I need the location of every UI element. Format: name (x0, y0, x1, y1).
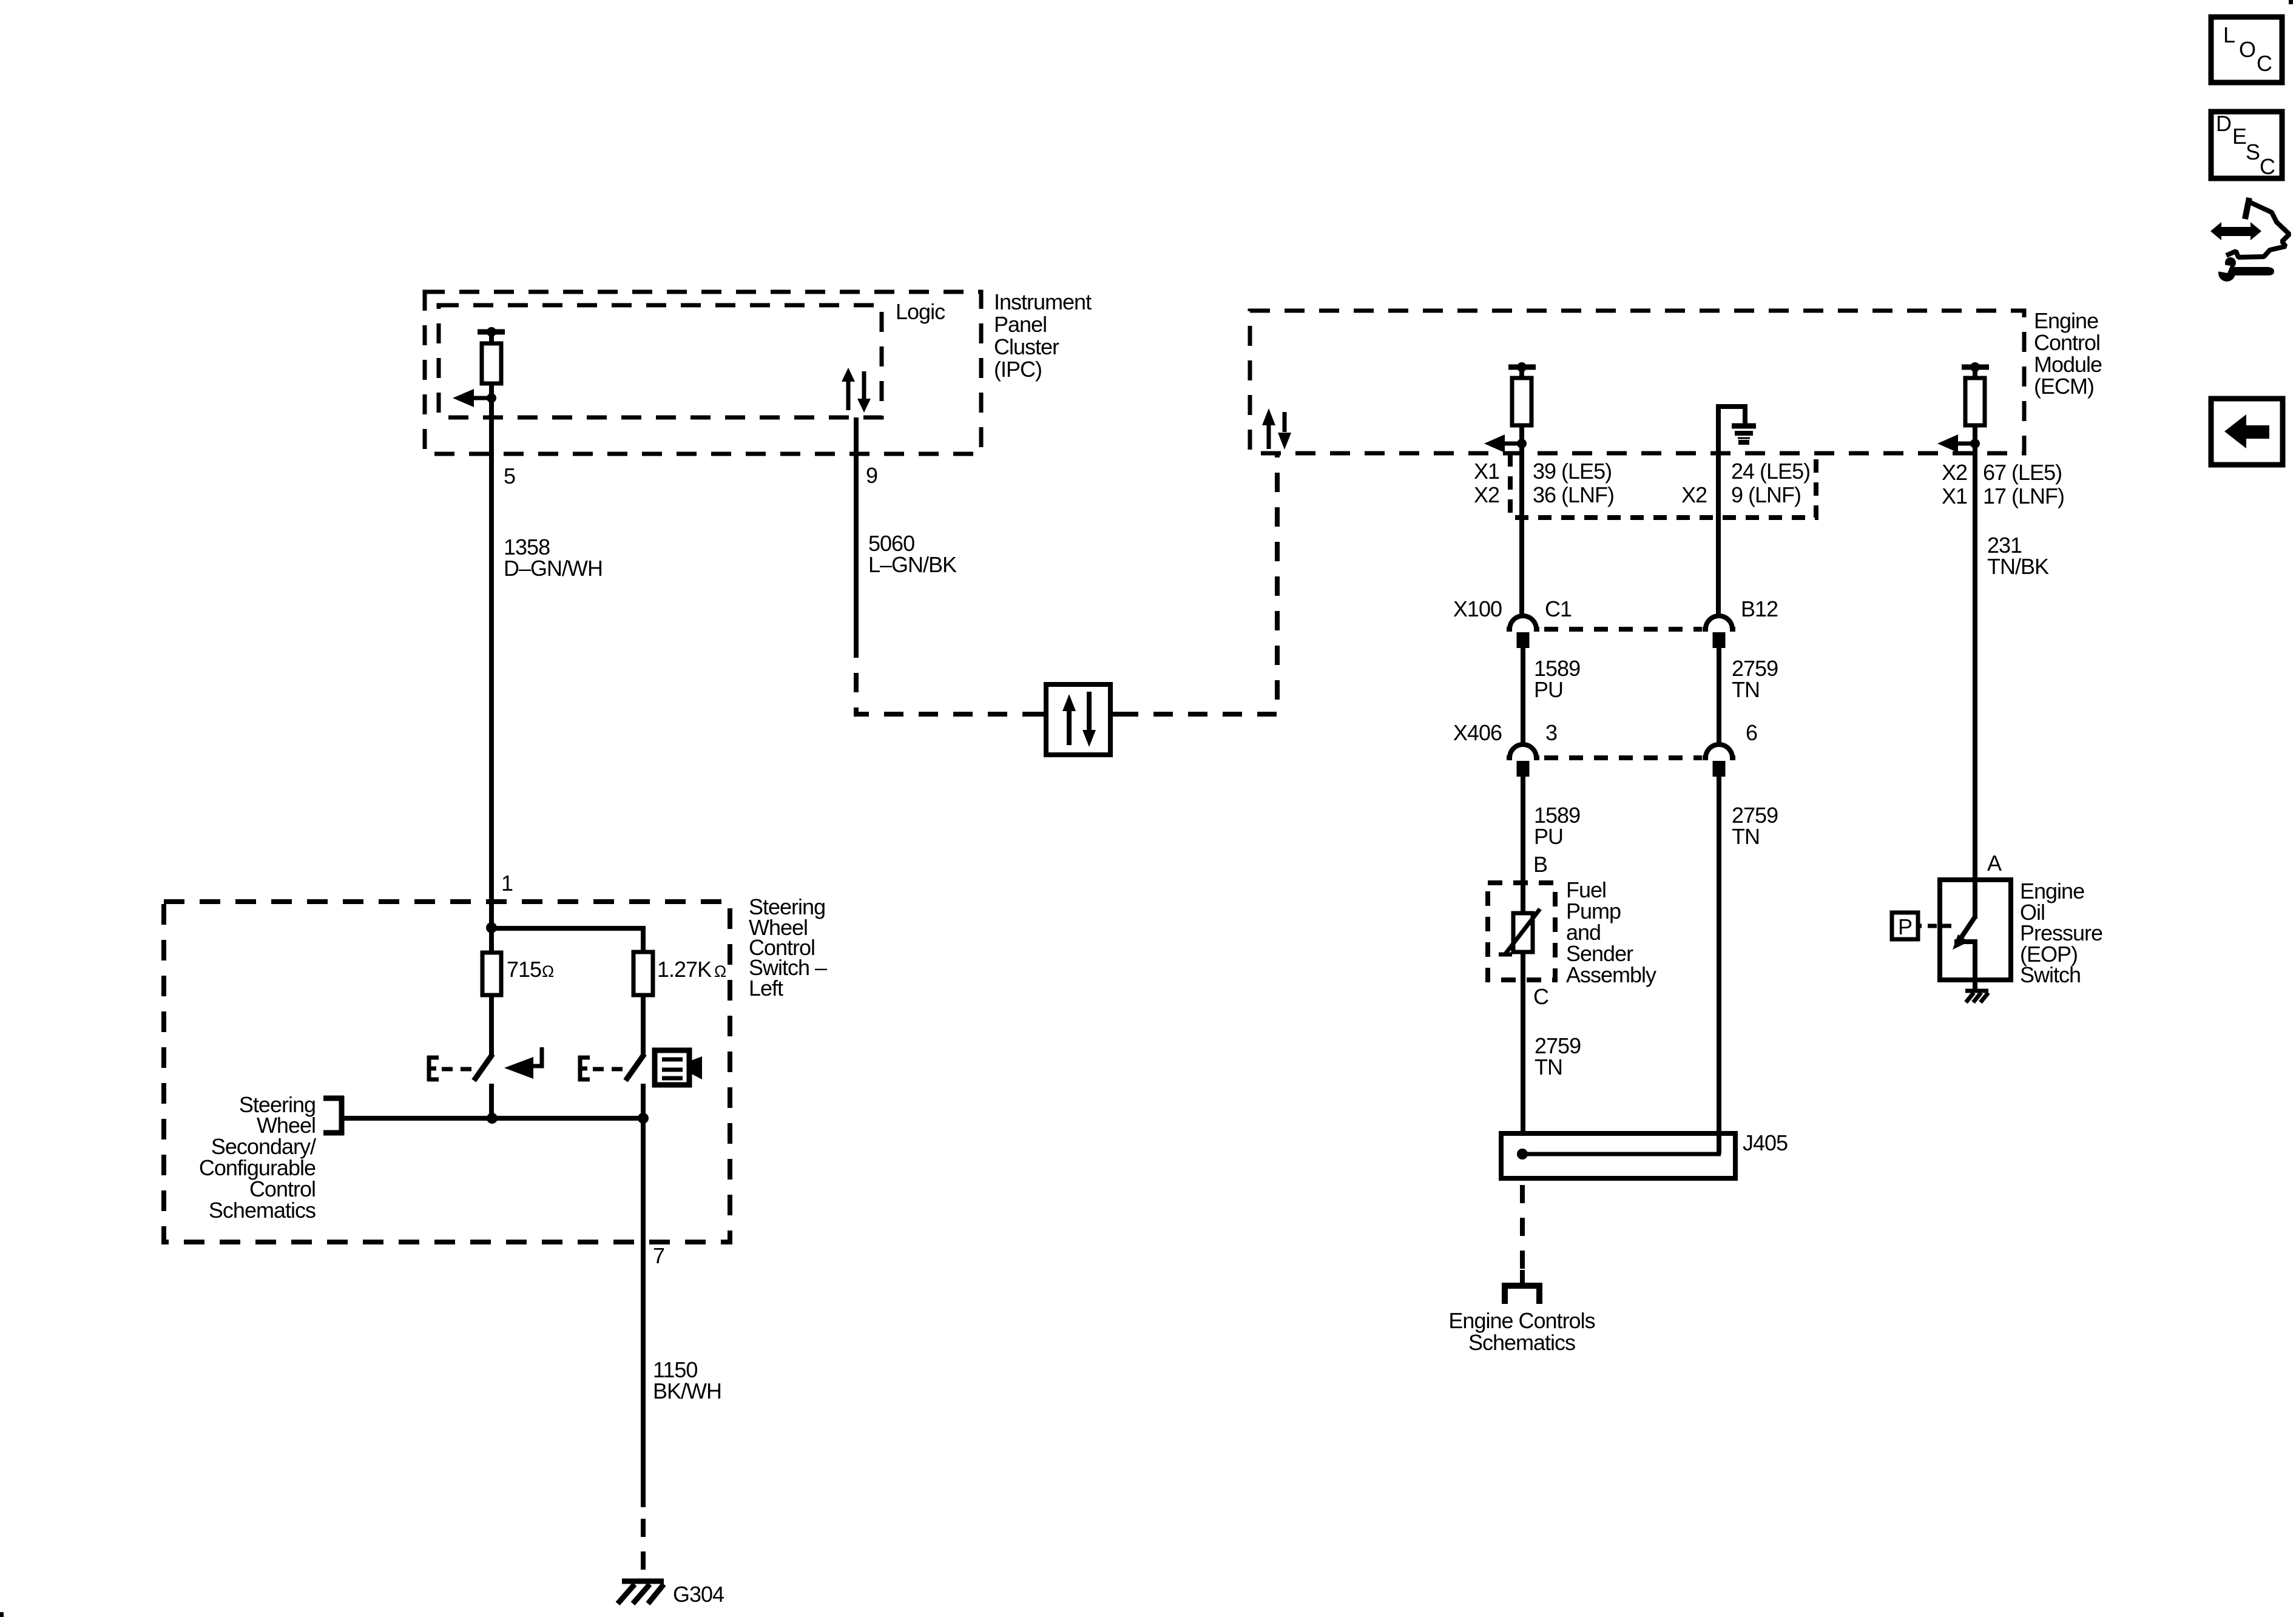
label 2759 TN third (1535, 1033, 1581, 1079)
label 5060 L-GN/BK (868, 531, 957, 577)
svg-text:Switch: Switch (2020, 962, 2081, 987)
icon text L O C (2223, 22, 2272, 76)
icon box DESC (2211, 112, 2282, 178)
svg-text:TN/BK: TN/BK (1987, 554, 2049, 579)
dashed link P to switch (1918, 924, 1922, 928)
wire 1589 PU (X100 to X406) (1521, 648, 1525, 746)
steering switch dashed box (164, 902, 730, 1242)
node junction top (486, 922, 497, 933)
pressure port P box (1892, 913, 1918, 939)
wire 5060 (IPC pin 9) solid (854, 417, 859, 638)
svg-text:J405: J405 (1743, 1130, 1788, 1155)
pin labels X1 X2 (1474, 459, 1499, 507)
label Fuel Pump and Sender Assembly (1566, 877, 1656, 987)
serial data box arrows (1062, 692, 1096, 747)
label Engine Control Module (ECM) (2034, 308, 2102, 399)
svg-text:D: D (2216, 111, 2231, 136)
svg-text:Engine: Engine (2034, 308, 2098, 333)
ECM internal ground for sender low reference (1718, 407, 1745, 452)
label 1358 D-GN/WH (504, 535, 603, 581)
fuel level sender variable resistor (1513, 913, 1533, 952)
wire to ground (1973, 980, 1977, 991)
wire 2759 TN (X406 to J405) (1717, 777, 1721, 1154)
IPC inner Logic dashed box (439, 305, 882, 417)
svg-text:Instrument: Instrument (994, 289, 1092, 314)
switch 1 dashed link (442, 1067, 472, 1072)
svg-text:TN: TN (1732, 677, 1760, 702)
icon double arrow (2210, 222, 2261, 240)
switch 2 dashed link (593, 1067, 623, 1072)
node junction ECM left (1517, 439, 1527, 448)
fuel pump dashed box (1488, 883, 1555, 980)
svg-text:C1: C1 (1545, 596, 1572, 621)
connector X406 right arc (1703, 744, 1735, 758)
svg-text:(IPC): (IPC) (994, 357, 1042, 382)
icon wrench (2218, 257, 2274, 282)
off-page bracket steering (323, 1096, 344, 1135)
label Engine Oil Pressure (EOP) Switch (2020, 879, 2102, 987)
svg-text:G304: G304 (673, 1582, 724, 1607)
label Engine Controls Schematics (1448, 1308, 1595, 1355)
resistor in ECM (fuel level input) (1512, 378, 1531, 425)
svg-text:Schematics: Schematics (1468, 1330, 1575, 1355)
svg-text:L–GN/BK: L–GN/BK (868, 552, 957, 577)
wire dashed below J405 (1520, 1185, 1525, 1271)
wire switch 1 lower (489, 1084, 494, 1118)
wire into switch (1973, 880, 1977, 919)
svg-text:1: 1 (501, 871, 513, 896)
X406 pin 3 male (1517, 761, 1530, 777)
ground G304 symbol (618, 1581, 664, 1604)
svg-text:S: S (2246, 140, 2260, 164)
svg-text:P: P (1898, 914, 1912, 939)
svg-text:Left: Left (749, 976, 783, 1001)
svg-text:PU: PU (1534, 824, 1563, 849)
label 1150 BK/WH (653, 1357, 721, 1403)
svg-text:L: L (2223, 22, 2235, 47)
resistor 715 (482, 953, 501, 995)
wire resistor 1.27K to switch (641, 995, 646, 1056)
ECM input arrow left (1484, 434, 1522, 453)
node splice dot (1517, 1149, 1528, 1160)
svg-text:Control: Control (2034, 330, 2100, 355)
svg-text:X406: X406 (1453, 720, 1502, 745)
svg-text:X1: X1 (1474, 459, 1499, 484)
X100 pin C1 male (1517, 632, 1530, 648)
svg-text:O: O (2239, 37, 2255, 62)
pin labels X2 X1 right (1942, 460, 1967, 508)
switch 1 E contact (427, 1056, 439, 1081)
ECM input arrow left (oil pressure) (1937, 434, 1975, 453)
wire to junction (1973, 425, 1977, 444)
resistor in ECM (oil pressure input) (1965, 378, 1985, 425)
resistor 1.27K (633, 952, 653, 995)
pin labels 39/36 (1533, 459, 1614, 507)
switch 2 E contact (578, 1056, 590, 1081)
svg-text:C: C (2257, 51, 2272, 76)
connector X100 left arc (1507, 616, 1539, 629)
svg-text:17 (LNF): 17 (LNF) (1983, 484, 2064, 508)
svg-text:PU: PU (1534, 677, 1563, 702)
svg-text:X2: X2 (1942, 460, 1967, 485)
svg-text:Cluster: Cluster (994, 334, 1059, 359)
node junction IPC (487, 393, 496, 403)
svg-text:A: A (1987, 851, 2002, 876)
serial data link box (1046, 684, 1110, 755)
svg-text:X1: X1 (1942, 484, 1967, 508)
svg-text:Panel: Panel (994, 312, 1047, 337)
icon box LOC (2211, 17, 2282, 83)
svg-text:7: 7 (653, 1243, 664, 1268)
svg-text:(ECM): (ECM) (2034, 374, 2094, 399)
label Steering Wheel Secondary/Configurable Control Schematics (199, 1092, 316, 1223)
pin labels 24/9 (1731, 459, 1810, 507)
label Steering Wheel Control Switch - Left (749, 894, 827, 1001)
volume/return icon (504, 1047, 542, 1079)
icon box back-arrow (2211, 399, 2283, 465)
label Instrument Panel Cluster (IPC) (994, 289, 1092, 382)
connector X406 dashed link (1544, 755, 1702, 760)
svg-text:Module: Module (2034, 352, 2102, 377)
svg-text:X2: X2 (1474, 482, 1499, 507)
svg-text:TN: TN (1732, 824, 1760, 849)
svg-text:D–GN/WH: D–GN/WH (504, 556, 603, 581)
ECM serial data up/down arrows (1262, 408, 1291, 450)
X100 pin B12 male (1713, 632, 1726, 648)
label 1589 PU second (1534, 803, 1580, 849)
svg-text:C: C (1533, 984, 1548, 1009)
chassis ground EOP (1965, 991, 1988, 1002)
ECM outer dashed box (1250, 311, 2024, 453)
wire 2759 TN (sender to J405) (1521, 952, 1525, 1154)
svg-text:BK/WH: BK/WH (653, 1379, 721, 1403)
node junction switch1 (487, 1113, 498, 1124)
wire 1589 PU (X406 to fuel pump) (1521, 777, 1525, 914)
svg-text:39 (LE5): 39 (LE5) (1533, 459, 1612, 484)
EOP switch box (1940, 880, 2011, 980)
svg-text:24 (LE5): 24 (LE5) (1731, 459, 1810, 484)
svg-text:B12: B12 (1741, 596, 1778, 621)
wire top branch (491, 928, 643, 952)
wire resistor to junction (489, 383, 494, 398)
switch 2 blade (626, 1054, 644, 1081)
label 1589 PU (1534, 656, 1580, 702)
wire horizontal bus (343, 1116, 643, 1121)
connector X100 right arc (1703, 616, 1735, 629)
svg-text:1.27K: 1.27K (657, 957, 712, 982)
svg-text:C: C (2260, 154, 2275, 179)
wire to 715 resistor (489, 928, 494, 953)
node junction switch2 (638, 1113, 649, 1124)
wire serial data dashed (data box to ECM) (1119, 453, 1277, 714)
wire resistor 715 to switch (489, 995, 494, 1055)
connector X406 left arc (1507, 744, 1539, 758)
icon text D E S C (2216, 111, 2275, 179)
svg-text:Ω: Ω (714, 962, 726, 981)
label 2759 TN second (1732, 803, 1778, 849)
wire to junction (1519, 425, 1524, 444)
wire 1589 PU (ECM to X100) (1519, 444, 1524, 617)
svg-text:X2: X2 (1681, 482, 1707, 507)
horn icon (655, 1050, 702, 1085)
IPC outer dashed box (425, 292, 981, 454)
icon back-arrow glyph (2224, 414, 2269, 448)
ECM oil pressure T-bar terminal (1962, 367, 1989, 378)
wire stub right of data box (1110, 712, 1119, 717)
IPC serial data up/down arrows (842, 368, 871, 413)
splice J405 box (1501, 1133, 1735, 1178)
svg-text:B: B (1533, 852, 1547, 877)
wire stub left of data box (1038, 712, 1046, 717)
svg-text:Assembly: Assembly (1566, 962, 1656, 987)
IPC output arrow left (453, 389, 491, 407)
wire switch 2 lower (641, 1084, 646, 1118)
wire right into splice (1717, 1133, 1721, 1154)
resistor in IPC (fuel gauge) (482, 343, 501, 383)
ECM connector dashed pin box (1510, 453, 1816, 518)
svg-text:36 (LNF): 36 (LNF) (1533, 482, 1614, 507)
page artifact dot top-right (2289, 0, 2293, 4)
svg-text:9: 9 (866, 463, 877, 488)
wire serial data dashed (IPC to data box) (856, 638, 1039, 714)
wire 1358 (IPC pin 5 down to steering switch) (489, 398, 494, 924)
label 2759 TN (1732, 656, 1778, 702)
switch fixed contact step (1954, 942, 1975, 980)
svg-text:5: 5 (504, 464, 515, 488)
connector X100 dashed link (1544, 627, 1702, 632)
label 231 TN/BK (1987, 533, 2049, 579)
svg-text:3: 3 (1545, 720, 1557, 745)
icon connector-with-wrench (2226, 198, 2289, 257)
svg-text:715: 715 (507, 957, 541, 982)
wire 2759 TN (X100 to X406) (1717, 648, 1721, 746)
wire 231 TN/BK (ECM to EOP) (1973, 444, 1977, 880)
svg-text:Logic: Logic (896, 299, 945, 324)
wire dashed to G304 (641, 1519, 646, 1578)
svg-text:Ω: Ω (542, 962, 554, 981)
svg-text:Engine Controls: Engine Controls (1448, 1308, 1595, 1333)
svg-text:E: E (2232, 124, 2246, 149)
off-page connector bracket (1505, 1270, 1539, 1304)
IPC gauge terminal T-bar (478, 332, 505, 343)
switch blade EOP (1962, 917, 1975, 937)
splice bus line (1522, 1152, 1721, 1156)
pin labels 67/17 (1983, 460, 2064, 508)
wire 1150 (pin 7 to ground) (641, 1118, 646, 1507)
svg-text:6: 6 (1746, 720, 1757, 745)
icon wrench notch (2213, 263, 2230, 273)
wire 2759 TN (ECM to X100) (1716, 452, 1721, 617)
X406 pin 6 male (1713, 761, 1726, 777)
svg-text:Schematics: Schematics (209, 1198, 316, 1223)
svg-text:X100: X100 (1453, 596, 1502, 621)
switch 1 blade (474, 1054, 493, 1081)
svg-text:67 (LE5): 67 (LE5) (1983, 460, 2062, 485)
svg-text:TN: TN (1535, 1055, 1562, 1079)
page artifact dot bottom-left (0, 1612, 4, 1617)
ECM fuel level T-bar terminal (1508, 367, 1536, 378)
svg-text:9 (LNF): 9 (LNF) (1731, 482, 1801, 507)
node junction ECM right (1970, 439, 1980, 448)
